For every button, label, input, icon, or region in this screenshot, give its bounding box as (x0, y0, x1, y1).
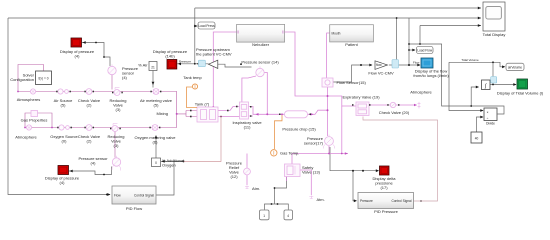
wire integrator output to green display (490, 84, 516, 86)
display of tidal volume (green) (517, 79, 528, 89)
svg-text:(2): (2) (87, 139, 93, 144)
svg-text:airVolume: airVolume (508, 66, 522, 70)
wire solver config loop (18, 65, 44, 92)
svg-text:(14b): (14b) (165, 54, 175, 59)
wire expiratory valve branch down (341, 106, 343, 154)
wire sensor4b drop (114, 131, 116, 158)
svg-text:1: 1 (263, 214, 265, 218)
Nebulizer block (237, 24, 285, 42)
svg-text:(4): (4) (122, 75, 128, 80)
svg-text:Atmosphere: Atmosphere (410, 90, 432, 95)
wire nebulizer left drop (213, 32, 236, 107)
wire PID Flow control signal (156, 161, 184, 195)
inspiratory valve 11 (240, 102, 249, 119)
svg-text:0: 0 (155, 161, 157, 165)
svg-text:Expiratory Valve (19): Expiratory Valve (19) (342, 95, 380, 100)
display of flow (blue) (421, 58, 433, 68)
svg-text:(17): (17) (380, 185, 388, 190)
wire patient mouth drop (327, 33, 330, 78)
integrator block (482, 77, 497, 90)
svg-text:Valve (13): Valve (13) (302, 170, 321, 175)
display of pressure 14b (red) (167, 60, 177, 70)
pressure drop 15 element (285, 111, 308, 118)
wire safety valve feed (291, 154, 293, 165)
svg-text:Flow: Flow (413, 61, 420, 65)
svg-text:(4): (4) (91, 161, 97, 166)
wire display of pressure 4a (82, 43, 110, 67)
oxygen source (59, 125, 64, 130)
wire PID Pressure control loop (363, 117, 438, 202)
flow sensor 15 (322, 78, 333, 87)
wire sensor14 right port drop (264, 73, 267, 115)
svg-text:21: 21 (151, 65, 155, 69)
svg-text:flow: flow (376, 63, 382, 67)
wire divide wrap to integrator (471, 87, 478, 106)
wire inspiratory valve to pressure drop (249, 107, 285, 117)
tank temp sensor circle (orange) (192, 84, 197, 89)
PID Pressure block (358, 193, 414, 209)
svg-text:Configuration: Configuration (10, 77, 34, 82)
svg-text:(3): (3) (116, 107, 122, 112)
svg-text:Load Flow: Load Flow (417, 49, 432, 53)
tank temp orange wire (187, 87, 198, 108)
oxygen metering valve 6 (152, 125, 158, 131)
wire safety valve left drop (286, 177, 288, 182)
gas temp sensor circle (orange) (271, 150, 277, 156)
constant 40 block (471, 132, 482, 143)
wire PRV vertical (246, 154, 248, 186)
wire expiratory valve to check valve 20 (367, 104, 417, 106)
svg-text:Atmospheres: Atmospheres (17, 97, 41, 102)
wire flow branch x409 (408, 18, 410, 65)
svg-text:Flow: Flow (114, 193, 121, 197)
svg-text:(2): (2) (87, 103, 93, 108)
wire PID flow control rose segment (184, 117, 222, 162)
check valve 20 (390, 102, 395, 107)
wire pct-oxygen riser (155, 136, 157, 159)
pressure relief valve 12 (244, 168, 251, 175)
wire sensor14 to gain (218, 64, 252, 67)
svg-text:Atm.: Atm. (317, 197, 325, 202)
wire to Load Pressure tag (195, 25, 197, 27)
svg-text:Tidal Volume: Tidal Volume (461, 58, 479, 62)
svg-text:Flow VC-CMV: Flow VC-CMV (368, 71, 394, 76)
wire mixing to tank (177, 111, 197, 117)
air source (58, 89, 63, 94)
gas temp orange wire (275, 114, 283, 149)
svg-text:Tank temp: Tank temp (183, 75, 202, 80)
svg-text:Nebulizer: Nebulizer (252, 42, 270, 47)
junction control/pipe (220, 116, 222, 118)
divide block (484, 108, 497, 126)
wire to divide input1 (409, 44, 504, 114)
wire 40-block riser (477, 117, 484, 132)
pressure sensor 14 (256, 68, 264, 76)
wire sensor17 to delta display (330, 147, 379, 171)
reducing valve 3 oxygen (112, 126, 118, 132)
svg-text:Pressure drop (15): Pressure drop (15) (282, 127, 316, 132)
wire air line (18, 91, 162, 93)
wire tank to inspiratory valve (218, 107, 240, 117)
svg-text:Atm.: Atm. (252, 186, 260, 191)
wire sensor17 bottom junction (292, 146, 348, 154)
svg-text:(11): (11) (244, 125, 251, 130)
display delta pressione (red) (380, 166, 390, 175)
svg-text:Oxygen: Oxygen (162, 163, 176, 168)
svg-text:Gas Properties: Gas Properties (21, 118, 48, 123)
atmosphere port oxygen (26, 125, 31, 130)
svg-text:Display of Tidal Volume (l): Display of Tidal Volume (l) (497, 91, 544, 96)
svg-text:Pressure: Pressure (179, 60, 191, 64)
pressure sensor 4a (108, 66, 116, 74)
svg-text:Mixing: Mixing (156, 111, 168, 116)
wire squares risers (265, 177, 289, 210)
pink arrowheads (256, 104, 418, 155)
wire left vertical feedback (8, 18, 110, 195)
wire flow feedback top y18 (8, 17, 481, 19)
svg-text:Divide: Divide (486, 122, 495, 126)
svg-text:% Air: % Air (138, 63, 148, 68)
wire gas properties loop (25, 113, 52, 128)
wire flow branch x396.6 (396, 18, 398, 65)
svg-text:Patient: Patient (345, 42, 358, 47)
atm port safety valve (309, 196, 313, 199)
pct Air block (149, 62, 157, 71)
dark port ticks on gas lines (56, 91, 399, 130)
wire sensor14 left port (242, 76, 256, 103)
gas properties block (31, 111, 38, 117)
wire gain to blue display (389, 64, 420, 66)
svg-text:Atmosphere: Atmosphere (15, 135, 37, 140)
wire nebulizer right return (285, 32, 357, 106)
svg-text:Check Valve (20): Check Valve (20) (379, 110, 410, 115)
svg-text:Control Signal: Control Signal (391, 199, 411, 203)
wire to additional oxygen block (161, 160, 184, 162)
svg-text:(4): (4) (75, 54, 81, 59)
wire scope input3 (420, 26, 481, 45)
svg-text:Gas Temp.: Gas Temp. (280, 151, 299, 156)
wire sensor4a riser (111, 75, 113, 90)
pressure sensor 4b (112, 158, 120, 166)
svg-text:(0): (0) (62, 139, 68, 144)
tank 7 (197, 107, 218, 122)
goto tag Load Flow (417, 47, 434, 54)
svg-text:Tank (7): Tank (7) (195, 101, 210, 106)
wire display14b link (177, 63, 209, 65)
svg-text:f(x) = 0: f(x) = 0 (38, 77, 48, 81)
svg-text:(5): (5) (154, 103, 160, 108)
pct Additional Oxygen block (152, 158, 161, 167)
wire air to mixing (162, 92, 177, 128)
svg-text:÷: ÷ (487, 117, 489, 121)
svg-text:the patient VC-CMV: the patient VC-CMV (196, 52, 232, 57)
svg-text:×: × (487, 111, 489, 115)
svg-text:Flow Sensor(15): Flow Sensor(15) (337, 80, 367, 85)
constant block 1 (260, 210, 270, 220)
safety valve 13 (285, 164, 301, 177)
wire to Load Flow tag (409, 49, 415, 51)
scope Total Display (483, 2, 505, 31)
Patient block (330, 25, 374, 42)
wire oxygen line (25, 127, 177, 129)
svg-text:Pressure: Pressure (360, 199, 373, 203)
svg-text:40: 40 (475, 136, 479, 140)
check valve 2 air (86, 89, 92, 95)
constant block 4 (284, 210, 293, 220)
atm port PRV (245, 186, 249, 189)
goto tag airVolume (506, 63, 524, 70)
svg-text:PID Pressure: PID Pressure (374, 209, 399, 214)
solver configuration f(x)=0 block (36, 71, 52, 85)
svg-text:Total Display: Total Display (483, 32, 506, 37)
svg-text:from/to lungs (l/min): from/to lungs (l/min) (413, 73, 449, 78)
PID Flow block (112, 186, 156, 204)
svg-text:Load Press: Load Press (198, 24, 215, 28)
svg-text:(3): (3) (114, 143, 120, 148)
atmosphere port after check valve 20 (418, 102, 421, 109)
wire pressure drop to patient line (308, 110, 328, 114)
pressure sensor 17 (325, 137, 334, 146)
goto tag Load Pressure (198, 22, 215, 29)
display of pressure 4b (red) (58, 166, 69, 175)
svg-text:(5): (5) (61, 103, 67, 108)
wire pressure top y8 (195, 7, 481, 9)
pink junction dots (17, 91, 343, 155)
wire tidal corner to divide (449, 62, 483, 110)
wire safety valve to atm (300, 170, 311, 195)
wire display of pressure 4b (69, 167, 112, 175)
gain triangle Flow VC-CMV (right pointing) (375, 60, 399, 70)
gain triangle pressure VC-CMV (left pointing) (198, 60, 217, 68)
svg-text:sensor(17): sensor(17) (304, 141, 324, 146)
display of pressure 4a (red) (71, 38, 82, 47)
svg-text:4: 4 (287, 214, 289, 218)
wire tidal volume horizontal (449, 62, 504, 67)
wire integrator out branch (492, 62, 494, 84)
wire patient circuit down (327, 87, 329, 136)
check valve 2 oxygen (86, 125, 92, 131)
svg-text:(4): (4) (60, 180, 66, 185)
svg-text:PID Flow: PID Flow (126, 206, 142, 211)
svg-text:Pressure sensor (14): Pressure sensor (14) (241, 60, 279, 65)
svg-text:Mouth: Mouth (332, 32, 341, 36)
expiratory valve 19 (356, 102, 369, 116)
atmosphere port air (30, 89, 35, 94)
reducing valve 3 air (114, 90, 120, 96)
wire pct-air drop (152, 71, 154, 88)
svg-text:(12): (12) (230, 174, 238, 179)
wire to PID Pressure input (353, 171, 357, 201)
air metering valve 5 (153, 89, 159, 95)
wire pressure vertical x194.8 (194, 8, 196, 64)
svg-text:Control Signal: Control Signal (134, 193, 154, 197)
svg-text:(6): (6) (153, 140, 159, 145)
wire flow sensor to gain (333, 65, 372, 82)
